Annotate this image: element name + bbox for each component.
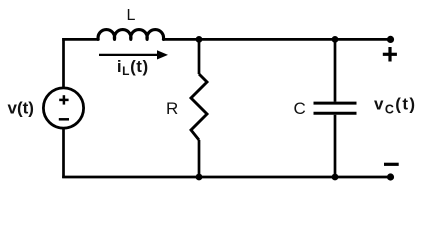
wire: left vertical lower segment bbox=[62, 127, 65, 178]
current arrow bbox=[99, 50, 168, 59]
node: resistor top junction bbox=[196, 36, 203, 43]
resistor R zigzag bbox=[191, 74, 207, 140]
node: right top terminal bbox=[387, 36, 394, 43]
minus sign at output bbox=[384, 163, 399, 166]
plus sign at output bbox=[383, 47, 397, 62]
wire: left vertical upper segment bbox=[62, 38, 65, 88]
wire: resistor bottom stub bbox=[198, 140, 201, 177]
svg-text:C: C bbox=[294, 99, 306, 118]
minus sign in source bbox=[59, 118, 69, 121]
voltage source v(t) bbox=[43, 88, 83, 128]
wire: resistor top stub bbox=[198, 39, 201, 74]
node: capacitor bottom junction bbox=[332, 174, 339, 181]
wire: top-left horizontal segment bbox=[62, 38, 98, 41]
node: right bottom terminal bbox=[387, 173, 394, 180]
svg-text:iL(t): iL(t) bbox=[117, 57, 149, 78]
wire: bottom horizontal bbox=[62, 176, 390, 179]
svg-text:L: L bbox=[127, 7, 136, 24]
wire: top horizontal from inductor to right terminal bbox=[163, 38, 390, 41]
wire: capacitor top stub bbox=[334, 39, 337, 101]
svg-text:R: R bbox=[166, 99, 178, 118]
wire: capacitor bottom stub bbox=[334, 115, 337, 177]
svg-text:vC(t): vC(t) bbox=[374, 95, 416, 117]
plus sign in source bbox=[59, 95, 68, 104]
node: resistor bottom junction bbox=[196, 174, 203, 181]
capacitor C plates bbox=[314, 103, 357, 113]
inductor L (4 humps) bbox=[98, 30, 164, 40]
svg-text:v(t): v(t) bbox=[8, 99, 34, 118]
node: capacitor top junction bbox=[332, 36, 339, 43]
